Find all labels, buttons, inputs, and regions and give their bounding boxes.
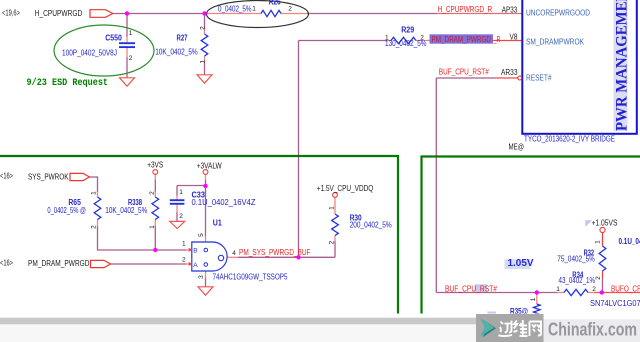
svg-text:<16>: <16> bbox=[0, 172, 13, 181]
svg-text:<19,6>: <19,6> bbox=[2, 9, 20, 18]
svg-text:2: 2 bbox=[592, 286, 596, 293]
svg-text:RESET#: RESET# bbox=[526, 74, 552, 83]
svg-text:V8: V8 bbox=[510, 33, 518, 42]
svg-text:H_CPUPWRGD_R: H_CPUPWRGD_R bbox=[438, 5, 493, 14]
svg-text:SYS_PWROK: SYS_PWROK bbox=[28, 172, 69, 181]
svg-text:SN74LVC1G07D: SN74LVC1G07D bbox=[590, 299, 640, 308]
svg-text:1: 1 bbox=[149, 225, 156, 229]
svg-text:AR33: AR33 bbox=[501, 68, 518, 77]
svg-text:Chinafix.com: Chinafix.com bbox=[548, 319, 637, 340]
svg-text:3: 3 bbox=[198, 275, 205, 279]
svg-text:_R: _R bbox=[493, 35, 501, 44]
svg-text:R27: R27 bbox=[177, 33, 188, 42]
svg-text:B: B bbox=[193, 247, 197, 254]
svg-text:2: 2 bbox=[179, 213, 183, 220]
svg-text:4: 4 bbox=[232, 250, 236, 257]
svg-text:1: 1 bbox=[556, 286, 560, 293]
svg-text:UNCOREPWRGOOD: UNCOREPWRGOOD bbox=[526, 8, 590, 17]
svg-text:130_0402_5%: 130_0402_5% bbox=[385, 39, 427, 48]
svg-text:<16>: <16> bbox=[0, 259, 13, 268]
svg-text:R26: R26 bbox=[269, 0, 281, 7]
svg-text:2: 2 bbox=[288, 6, 292, 13]
svg-text:2: 2 bbox=[91, 225, 98, 229]
svg-text:1: 1 bbox=[595, 240, 602, 244]
svg-text:PM_DRAM_PWRGD: PM_DRAM_PWRGD bbox=[28, 259, 90, 268]
svg-text:9/23 ESD Request: 9/23 ESD Request bbox=[27, 77, 109, 89]
svg-text:1: 1 bbox=[328, 206, 335, 210]
svg-text:+3VALW: +3VALW bbox=[197, 162, 222, 171]
svg-text:BUFO_CPU_RST#: BUFO_CPU_RST# bbox=[611, 284, 640, 293]
svg-text:PM_DRAM_PWRGD: PM_DRAM_PWRGD bbox=[432, 35, 492, 44]
svg-text:10K_0402_5%: 10K_0402_5% bbox=[105, 206, 147, 215]
svg-text:75_0402_5%: 75_0402_5% bbox=[557, 254, 595, 263]
svg-text:0_0402_5%: 0_0402_5% bbox=[218, 4, 252, 13]
svg-text:BUF_CPU_RST#: BUF_CPU_RST# bbox=[439, 68, 489, 77]
svg-text:AP33: AP33 bbox=[502, 5, 518, 14]
svg-text:SM_DRAMPWROK: SM_DRAMPWROK bbox=[526, 38, 585, 47]
svg-text:+3VS: +3VS bbox=[147, 161, 163, 170]
svg-text:TYCO_2013620-2_IVY BRIDGE: TYCO_2013620-2_IVY BRIDGE bbox=[524, 134, 615, 143]
svg-text:1: 1 bbox=[530, 297, 537, 301]
svg-text:PWR MANAGEMENT: PWR MANAGEMENT bbox=[614, 0, 631, 131]
svg-text:2: 2 bbox=[328, 240, 335, 244]
svg-text:200_0402_5%: 200_0402_5% bbox=[350, 221, 392, 230]
svg-text:0_0402_5% @: 0_0402_5% @ bbox=[47, 206, 86, 215]
svg-text:+1.5V_CPU_VDDQ: +1.5V_CPU_VDDQ bbox=[317, 184, 374, 193]
svg-text:+1.05VS: +1.05VS bbox=[592, 219, 618, 228]
svg-text:1: 1 bbox=[182, 240, 186, 247]
svg-text:2: 2 bbox=[149, 191, 156, 195]
svg-text:5: 5 bbox=[198, 233, 205, 237]
svg-text:1: 1 bbox=[91, 191, 98, 195]
svg-text:10K_0402_5%: 10K_0402_5% bbox=[155, 47, 198, 56]
svg-text:C550: C550 bbox=[105, 33, 122, 42]
svg-text:2: 2 bbox=[595, 276, 602, 280]
svg-text:43_0402_1%: 43_0402_1% bbox=[559, 276, 596, 285]
svg-text:2: 2 bbox=[129, 55, 133, 62]
svg-text:2: 2 bbox=[200, 26, 207, 30]
svg-text:R29: R29 bbox=[401, 26, 414, 35]
svg-text:BUF_CPU_RST#: BUF_CPU_RST# bbox=[445, 284, 497, 293]
svg-text:74AHC1G09GW_TSSOP5: 74AHC1G09GW_TSSOP5 bbox=[213, 273, 288, 282]
svg-text:1: 1 bbox=[200, 60, 207, 64]
svg-text:ME@: ME@ bbox=[509, 143, 525, 152]
svg-text:1: 1 bbox=[129, 30, 133, 37]
svg-text:PM_SYS_PWRGD_BUF: PM_SYS_PWRGD_BUF bbox=[239, 248, 311, 257]
svg-text:100P_0402_50V8J: 100P_0402_50V8J bbox=[62, 49, 117, 58]
svg-text:1: 1 bbox=[252, 6, 256, 13]
svg-text:A: A bbox=[193, 262, 198, 269]
svg-text:0.1U_0402_16V4Z: 0.1U_0402_16V4Z bbox=[192, 198, 256, 207]
svg-text:1.05V: 1.05V bbox=[508, 258, 534, 269]
svg-text:0.1U_04: 0.1U_04 bbox=[619, 237, 640, 246]
svg-text:1: 1 bbox=[179, 189, 183, 196]
svg-text:2: 2 bbox=[182, 257, 186, 264]
svg-text:H_CPUPWRGD: H_CPUPWRGD bbox=[35, 9, 83, 18]
svg-text:U1: U1 bbox=[213, 219, 222, 228]
